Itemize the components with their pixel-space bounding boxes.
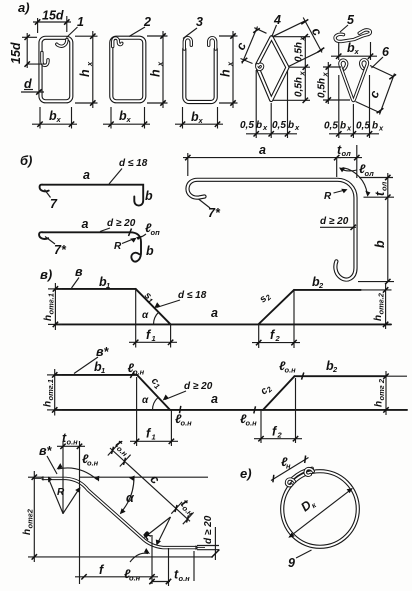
svg-text:отг2: отг2 [26,508,35,528]
svg-text:d ≥ 20: d ≥ 20 [203,515,214,544]
svg-text:s2: s2 [258,290,274,306]
shape 7* small (bar with R bend, d>=20) [39,232,141,261]
svg-text:x: x [321,72,330,78]
svg-text:s1: s1 [141,290,156,305]
svg-text:о.н: о.н [87,459,99,468]
svg-text:x: x [226,61,235,67]
svg-text:2: 2 [143,15,151,29]
svg-text:a: a [82,217,89,231]
svg-text:е): е) [240,466,252,481]
label l_о.н top-left (row2) [128,361,145,377]
dimension h_x profile2 [147,31,168,108]
slanted dimension chain t_о.н / c / t_о.н along slant [108,437,199,524]
leader 7 [45,190,59,212]
svg-text:отг.2: отг.2 [377,292,386,314]
dimension h_отг.1 (row2) [43,369,63,416]
svg-text:x: x [294,123,300,132]
svg-text:a: a [211,392,218,406]
dimension t_ол (right side, rotated) [359,173,394,200]
dimension f [75,563,158,580]
svg-text:a: a [259,143,266,157]
svg-text:7*: 7* [54,243,67,257]
profile 1 left seam hook [42,53,48,66]
dimension f2 (row1) [252,290,300,348]
dimension 0,5b_x 0,5b_x bottom of V [324,75,384,138]
svg-text:b: b [146,244,154,258]
bottom extension line [90,556,213,558]
svg-text:4: 4 [273,13,281,27]
svg-text:отг.1: отг.1 [46,379,55,400]
svg-text:d ≤ 18: d ≤ 18 [119,158,148,169]
leader 7* [45,237,67,258]
dimension t_ол (top of bend) [337,143,362,178]
profile 4 (diamond) [257,37,287,100]
dimension h_отг.2 (right) [362,284,392,329]
svg-text:7: 7 [50,197,58,211]
dimension t_о.н (top) [57,431,85,584]
dimension a (shape 7) [83,168,90,182]
dimension 15d top [33,9,71,34]
svg-text:0,5: 0,5 [324,121,338,132]
shape в*: right shelf b2 [295,375,387,377]
svg-text:R: R [324,191,332,202]
svg-text:d ≥ 20: d ≥ 20 [184,381,213,392]
dimension t_о.н (bottom right) [149,568,190,585]
dimension 15d left [9,33,45,68]
svg-text:о.н: о.н [285,366,297,375]
svg-text:x: x [198,116,204,125]
label l_о.н bottom (row2) [175,412,192,428]
dimension f1 (row1) [129,289,177,348]
svg-text:x: x [346,124,352,133]
svg-text:2: 2 [318,281,324,290]
label b2 (row2) [326,359,338,374]
dimension d>=20 (stub) [197,515,219,560]
shape 7* large (angle bar with hooks) [187,180,355,280]
label d<=18 with leader (row1) [154,290,207,308]
svg-text:1: 1 [77,15,84,29]
svg-text:0,5h: 0,5h [317,78,328,98]
svg-text:c2: c2 [259,382,275,398]
svg-text:1: 1 [106,281,110,290]
svg-text:отг 2: отг 2 [377,378,386,400]
label a (row2) [211,392,218,406]
leader 3 [183,15,203,39]
svg-text:0,5: 0,5 [356,121,370,132]
svg-text:оп: оп [151,228,161,237]
svg-text:ол: ол [380,181,389,191]
svg-text:x: x [126,115,132,124]
leader в* [74,345,110,374]
lap arc and hooks at top of ring [287,468,314,485]
svg-text:о.н: о.н [181,419,193,428]
svg-text:b: b [256,120,262,131]
svg-text:d ≥ 20: d ≥ 20 [107,218,136,229]
dimension b_x profile5 [331,41,377,60]
svg-text:b: b [145,189,153,203]
axis dash-dot line [33,478,205,547]
dimension h_отг.2 (row2) [374,371,408,415]
svg-text:5: 5 [347,13,355,27]
svg-text:Dк: Dк [298,495,319,516]
svg-text:x: x [354,47,360,56]
label d>=20 with leader (shape 7*) [100,218,136,236]
label R with arrow (shape 7*) [114,238,137,252]
svg-text:1: 1 [152,334,156,343]
dimension b_x profile1 [32,107,77,129]
shape в*: left shelf b1 [55,374,137,376]
dimension h_отг (far left) [22,471,90,562]
label s2 (on slant) [258,290,274,306]
shape в*: right slant c2 [263,376,295,410]
svg-text:d ≤ 18: d ≤ 18 [178,290,207,301]
dimension d (wall thickness) [21,77,44,95]
bend tick left shelf [130,371,134,378]
profile 4 loop at left vertex [257,64,263,69]
svg-text:0,5h: 0,5h [294,77,305,97]
profile 3 (open U with curled lips) [184,49,215,102]
label b (shape 7) [145,189,153,203]
svg-text:a: a [83,168,90,182]
leader 6 [372,45,391,68]
dimension f2 (row2) [254,378,302,443]
svg-text:2: 2 [275,334,281,343]
dimension 0,5h_x lower right [273,67,311,103]
dimension c right of V [356,66,397,115]
leader в* (detail) [39,444,57,474]
label R with arrow (large shape) [324,189,348,202]
svg-text:0,5: 0,5 [272,120,286,131]
dimension h_отг.1 (left) [43,283,62,330]
svg-text:h: h [43,401,54,407]
svg-text:15d: 15d [9,42,23,64]
profile 1 top seam hook [57,40,67,47]
svg-text:1: 1 [152,433,156,442]
svg-text:о.н: о.н [67,438,79,447]
svg-text:7*: 7* [208,206,221,220]
svg-text:о.н: о.н [179,574,191,583]
svg-text:в: в [75,265,83,279]
dimension D_к (diameter) [288,488,353,538]
svg-text:R: R [114,241,122,252]
svg-text:в): в) [40,267,52,282]
label b1 (row2) [94,360,105,375]
svg-text:b: b [373,240,387,248]
svg-text:3: 3 [196,15,203,29]
dimension l_н (lap length) [271,455,309,482]
svg-text:x: x [156,61,165,67]
ring (circular hoop) [282,471,358,547]
svg-text:6: 6 [382,45,390,59]
svg-text:x: x [85,61,94,67]
leader 9 [288,550,312,570]
profile 1 (closed rect tube with lapped seam) [41,38,72,102]
dimension a (shape 7*) [82,217,89,231]
leader 1 [67,15,85,38]
angle alpha arc (row2) [142,395,158,410]
svg-text:tо.н: tо.н [177,496,199,518]
R with arrows from bend centre (top bend) [48,477,81,514]
svg-text:α: α [126,491,135,505]
bend tick left bottom [180,406,181,413]
svg-text:h: h [219,69,233,77]
leader 2 [129,15,151,37]
shape в: right shelf b2 [294,289,361,291]
R with arrows (bottom bend) [141,517,170,546]
svg-text:x: x [298,36,307,42]
dimension b_x profile2 [103,107,150,129]
shape в: left slant s1 [136,289,171,325]
svg-text:h: h [373,315,384,321]
svg-text:в*: в* [39,444,53,458]
svg-text:c: c [233,40,249,52]
svg-text:h: h [43,315,54,321]
dimension h_x profile3 [219,31,238,108]
svg-text:о.н: о.н [133,368,145,377]
dimension b (right side) [358,197,394,284]
profile 5 (flat S hook) [335,30,370,42]
label d>=20 with leader (row2) [163,381,213,401]
dimension b_x profile3 [175,107,223,129]
svg-text:ол: ол [342,149,352,158]
svg-text:d ≥ 20: d ≥ 20 [320,216,349,227]
shape в: left shelf b1 [55,288,135,290]
svg-text:h: h [78,69,92,77]
svg-text:в*: в* [96,345,110,359]
leader в [72,265,84,288]
svg-text:R: R [57,487,65,498]
angle alpha arc (detail) [120,476,135,515]
svg-text:отг.1: отг.1 [47,293,56,314]
profile 3 right lip [209,38,216,49]
label b1 [99,275,110,290]
svg-text:b: b [288,120,294,131]
label d<=18 with leader (shape 7) [109,158,148,184]
svg-text:x: x [298,71,307,77]
shape в: right slant s2 [259,290,294,324]
profile 6 (V with curled ends) [340,60,367,101]
shape в: bottom plate a [55,323,391,325]
svg-text:9: 9 [288,556,295,570]
vertical ext lines at bottom bend [152,535,194,586]
svg-text:2: 2 [277,431,283,440]
label l_о.н bottom-left (row2 right) [240,412,257,428]
dimension 0,5b_x 0,5b_x bottom of diamond [240,70,300,138]
horizontal ext line from corner [80,476,208,478]
profile 2 seam hook [113,38,122,46]
label b (shape 7*) [146,244,154,258]
label l_о.н with arc (bottom) [124,548,150,583]
label l_о.н top (row2 right) [279,359,296,375]
dimension 0,5h_x left of V [317,62,351,104]
svg-text:f: f [99,563,105,577]
svg-text:h: h [149,69,163,77]
dimension c upper-left of diamond [233,27,266,64]
dimension c upper-right of diamond [273,18,325,67]
angle alpha arc (row1) [142,310,159,324]
leader 4 [272,13,281,37]
svg-text:н: н [286,462,291,471]
label s1 (on slant) [141,290,156,305]
dimension h_x profile1 [75,31,98,108]
shape в*: left slant c1 [137,375,170,410]
svg-text:α: α [142,310,149,321]
dimension a (large shape) [183,143,341,176]
svg-text:15d: 15d [42,9,64,23]
label a (row1) [211,306,218,320]
profile 2 (closed tube, hook seam) [111,38,144,102]
svg-text:1: 1 [101,366,105,375]
leader 5 [340,13,355,32]
shape в*: bottom plate a [55,409,407,411]
svg-text:о.н: о.н [129,574,141,583]
svg-text:a: a [211,306,218,320]
bent strip (bar + slant + stub) [43,476,196,549]
dimension f1 (row2) [130,377,178,446]
label b2 (row1) [312,275,324,290]
bend tick right bottom [254,406,256,413]
svg-text:h: h [22,529,33,535]
svg-text:b: b [372,121,378,132]
svg-text:а): а) [18,0,30,15]
svg-text:0,5: 0,5 [240,120,254,131]
dimension 0,5h_x upper right [273,34,310,70]
shape 7 (flat bar with end hooks, d<=18) [40,185,144,206]
label l_о.н with bend arc (top bend) [57,452,100,482]
label c2 (row2) [259,382,275,398]
label d>=20 (large shape) [320,216,356,230]
label l_ол with bend arc [339,162,374,197]
label c1 (row2) [148,376,163,391]
svg-text:α: α [142,395,149,406]
label l_op with arrow (shape 7*) [136,221,160,240]
svg-text:b: b [340,121,346,132]
bend tick right shelf [302,373,304,380]
svg-text:о.н: о.н [246,419,258,428]
profile 3 left lip [184,38,191,49]
svg-text:d: d [24,77,32,91]
svg-text:0,5h: 0,5h [294,42,305,62]
svg-text:x: x [56,115,62,124]
leader 7* (large) [199,199,221,220]
svg-text:x: x [262,123,268,132]
svg-text:c: c [309,25,325,38]
svg-text:x: x [378,124,384,133]
svg-text:б): б) [20,153,32,168]
svg-text:2: 2 [332,365,338,374]
svg-text:ол: ол [365,169,375,178]
svg-text:h: h [374,401,385,407]
